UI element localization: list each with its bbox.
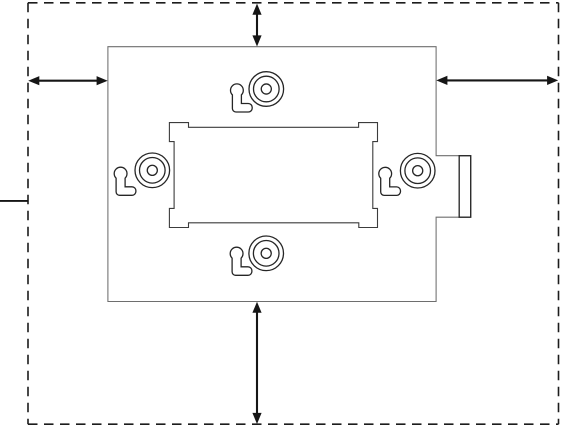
inner cover outline with corner tabs — [169, 123, 377, 228]
clearance arrow top — [252, 4, 261, 47]
component body outline with right-side tab — [108, 47, 471, 302]
mounting hole top: concentric circles — [249, 72, 284, 107]
mounting hole left: concentric circles — [135, 153, 170, 188]
mounting hole bottom: concentric circles — [249, 236, 284, 271]
tab key rectangle — [459, 156, 471, 218]
pin slot bottom — [230, 247, 252, 275]
clearance arrow right — [436, 76, 558, 85]
dashed clearance boundary right edge — [558, 3, 560, 424]
edge reference tick line — [0, 200, 29, 202]
clearance arrow bottom — [252, 302, 261, 424]
mounting hole right: concentric circles — [400, 153, 435, 188]
pin slot left — [114, 167, 136, 195]
pin slot top — [231, 84, 253, 112]
dashed clearance boundary top edge — [28, 2, 559, 4]
dashed clearance boundary bottom edge — [28, 423, 559, 425]
dashed clearance boundary left edge — [27, 3, 29, 424]
clearance arrow left — [28, 76, 108, 85]
pin slot right — [379, 167, 401, 195]
